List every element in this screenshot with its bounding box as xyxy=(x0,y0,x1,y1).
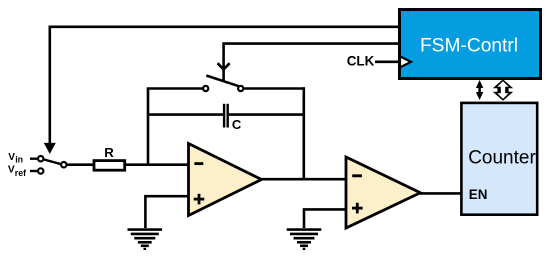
wire Vref stub xyxy=(30,170,37,172)
switch S1 blade Vin to node xyxy=(44,159,62,164)
svg-text:ref: ref xyxy=(15,168,26,178)
ground GND1 xyxy=(128,230,163,249)
wire switch right to node B xyxy=(243,87,305,90)
wire U2 non-inverting to ground xyxy=(304,209,346,228)
FSM-Contrl box U3 xyxy=(400,10,541,79)
svg-text:CLK: CLK xyxy=(347,54,375,69)
thin double arrow FSM-Counter xyxy=(476,80,483,100)
arrow chevron on reset switch control xyxy=(218,63,230,69)
capacitor C plates xyxy=(224,104,228,128)
wire CLK xyxy=(375,60,400,63)
svg-text:V: V xyxy=(8,152,15,163)
wire node to resistor xyxy=(67,163,94,166)
wire Vin stub xyxy=(30,157,37,159)
wire feedback right vertical node B xyxy=(302,87,305,179)
wire capacitor right branch xyxy=(229,113,305,116)
wire capacitor left branch xyxy=(148,113,223,116)
thick hollow double arrow FSM-Counter xyxy=(493,79,513,100)
wire feedback left vertical node A xyxy=(148,89,203,166)
wire resistor to op-amp U1 inverting input xyxy=(124,163,189,166)
terminal Vin xyxy=(38,156,43,161)
wire U2 output to Counter EN xyxy=(418,192,462,195)
wire feedback top from FSM to left xyxy=(50,27,398,143)
svg-text:EN: EN xyxy=(469,187,488,202)
Counter box U4 xyxy=(461,103,537,215)
switch S2 right contact xyxy=(238,86,243,91)
svg-text:C: C xyxy=(232,117,242,132)
switch S2 blade xyxy=(206,76,239,87)
switch S2 left contact xyxy=(203,86,208,91)
wire U1 output to U2 xyxy=(260,178,346,181)
wire FSM to reset switch xyxy=(224,44,398,81)
op-amp U1 integrator xyxy=(189,144,262,216)
resistor R xyxy=(94,161,125,171)
svg-text:R: R xyxy=(104,145,114,160)
op-amp U2 comparator xyxy=(346,157,420,228)
svg-text:in: in xyxy=(15,154,23,164)
node input xyxy=(61,162,66,167)
arrow down onto input switch xyxy=(44,143,56,154)
wire U1 non-inverting to ground xyxy=(145,196,188,228)
ground GND2 xyxy=(287,230,322,249)
CLK open arrowhead xyxy=(400,56,411,67)
svg-text:Counter: Counter xyxy=(468,147,536,168)
terminal Vref xyxy=(38,168,43,173)
svg-text:FSM-Contrl: FSM-Contrl xyxy=(420,36,518,57)
